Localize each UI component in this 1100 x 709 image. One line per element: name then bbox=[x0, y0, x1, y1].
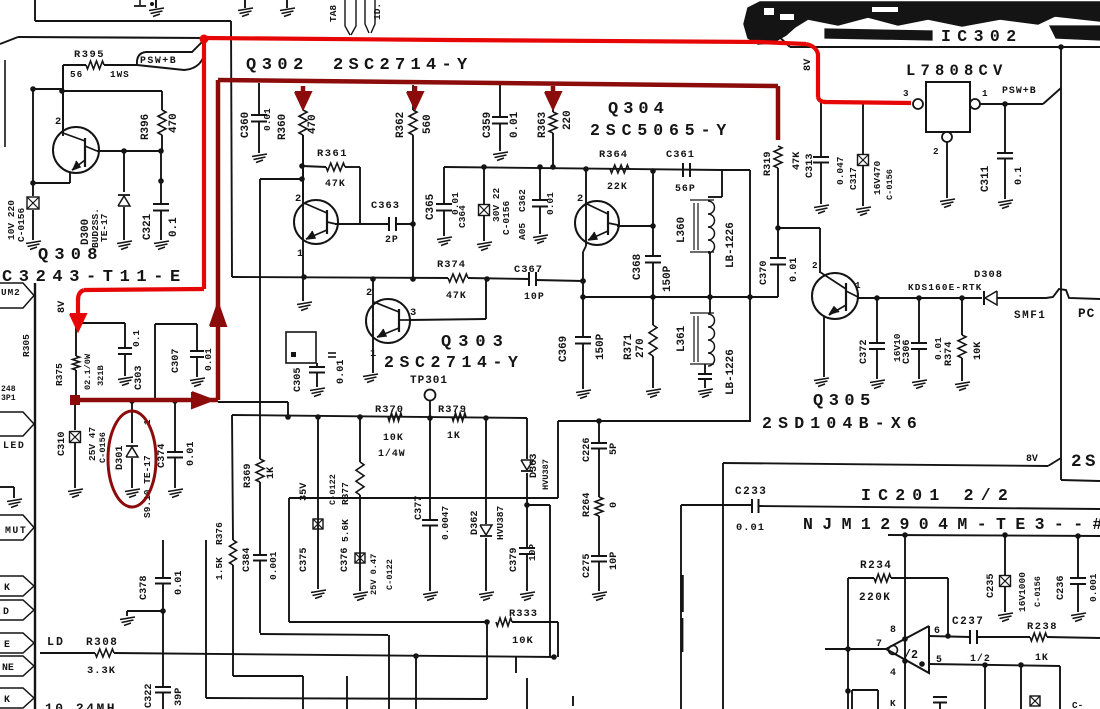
transistor Q303 bbox=[372, 279, 374, 373]
wire hop to PC bbox=[1046, 289, 1100, 299]
box connector TP bbox=[286, 332, 316, 363]
svg-text:C317: C317 bbox=[848, 167, 859, 190]
wire inner top y535 bbox=[888, 535, 1100, 536]
svg-text:C-0122: C-0122 bbox=[385, 559, 395, 590]
svg-text:1D.: 1D. bbox=[372, 3, 383, 20]
wire Q303 collector bbox=[410, 319, 486, 320]
svg-text:470: 470 bbox=[168, 113, 180, 133]
svg-text:R376: R376 bbox=[214, 522, 225, 545]
svg-text:8: 8 bbox=[890, 624, 896, 635]
svg-text:LB-1226: LB-1226 bbox=[725, 349, 737, 395]
svg-text:NE: NE bbox=[2, 662, 14, 673]
capacitor C307 bbox=[154, 324, 156, 399]
svg-text:R360: R360 bbox=[277, 114, 289, 140]
svg-text:C363: C363 bbox=[371, 200, 400, 212]
svg-text:LD: LD bbox=[47, 636, 65, 649]
svg-text:R361: R361 bbox=[317, 148, 348, 160]
wire Q303 emitter bbox=[363, 374, 378, 377]
svg-text:1: 1 bbox=[297, 248, 303, 260]
svg-text:D308: D308 bbox=[974, 269, 1003, 281]
resistor R370 bbox=[388, 413, 402, 421]
svg-text:0.01: 0.01 bbox=[509, 111, 521, 138]
resistor R379 bbox=[452, 413, 466, 421]
resistor R319 bbox=[774, 146, 782, 168]
wire R308 long bbox=[114, 653, 554, 657]
svg-text:0.01: 0.01 bbox=[203, 348, 214, 371]
svg-text:R333: R333 bbox=[509, 608, 538, 620]
svg-text:R374: R374 bbox=[437, 259, 466, 271]
svg-text:47K: 47K bbox=[325, 178, 346, 189]
svg-text:6: 6 bbox=[934, 625, 940, 636]
svg-text:248: 248 bbox=[1, 385, 16, 394]
svg-text:3: 3 bbox=[903, 88, 909, 99]
svg-text:1WS: 1WS bbox=[110, 69, 130, 80]
red highlight path main bbox=[204, 38, 806, 44]
svg-text:TA8: TA8 bbox=[328, 5, 339, 22]
svg-text:1K: 1K bbox=[447, 430, 461, 441]
svg-text:150P: 150P bbox=[662, 265, 674, 292]
svg-text:C-0156: C-0156 bbox=[1033, 576, 1043, 607]
capacitor C306 bbox=[918, 298, 920, 342]
svg-text:150P: 150P bbox=[595, 333, 607, 360]
svg-text:C3243-T11-E: C3243-T11-E bbox=[2, 268, 187, 287]
inductor L360 bbox=[721, 170, 723, 197]
diode D362 chain bbox=[485, 418, 487, 524]
svg-text:C-: C- bbox=[1072, 700, 1083, 709]
transistor Q308 bbox=[53, 127, 99, 173]
svg-text:C-0156: C-0156 bbox=[885, 169, 895, 200]
svg-text:C367: C367 bbox=[514, 264, 543, 276]
resistor R377 chain bbox=[359, 417, 361, 462]
svg-text:2SD104B-X6: 2SD104B-X6 bbox=[762, 414, 923, 433]
svg-text:LED: LED bbox=[3, 440, 25, 451]
capacitor top small bbox=[139, 0, 141, 5]
svg-text:A05: A05 bbox=[517, 223, 528, 240]
resistor R395 bbox=[63, 64, 86, 66]
wire 8V rail right bbox=[723, 463, 1048, 466]
svg-text:R370: R370 bbox=[375, 404, 404, 416]
resistor R308 bbox=[95, 649, 114, 657]
svg-text:D: D bbox=[3, 606, 9, 617]
capacitor C370 bbox=[777, 228, 779, 257]
net label E bbox=[0, 633, 34, 653]
capacitor C365 bbox=[443, 167, 445, 203]
svg-text:2SC5065-Y: 2SC5065-Y bbox=[590, 121, 732, 140]
wire IC201 box top bbox=[722, 463, 724, 709]
svg-text:UM2: UM2 bbox=[1, 287, 21, 298]
wire y91 to R396 bbox=[62, 90, 162, 92]
capacitor C363 bbox=[335, 223, 388, 225]
svg-text:16V470: 16V470 bbox=[872, 160, 883, 195]
svg-text:1K: 1K bbox=[1035, 652, 1049, 663]
svg-text:2SC2714-Y: 2SC2714-Y bbox=[384, 353, 524, 372]
svg-text:3: 3 bbox=[410, 307, 416, 319]
svg-text:C360: C360 bbox=[240, 112, 252, 138]
capacitor C361 bbox=[682, 163, 684, 177]
wire vertical bus x232 bbox=[231, 21, 232, 277]
svg-text:2SC2714-Y: 2SC2714-Y bbox=[333, 56, 473, 75]
svg-text:C-0122: C-0122 bbox=[328, 474, 338, 505]
wire Q308 collector bbox=[97, 150, 161, 152]
svg-text:C384: C384 bbox=[242, 548, 253, 572]
svg-text:2: 2 bbox=[812, 260, 818, 271]
svg-text:C236: C236 bbox=[1056, 576, 1067, 600]
svg-text:R305: R305 bbox=[21, 334, 32, 357]
net label NE bbox=[0, 656, 34, 676]
wire D363 to bottom bbox=[527, 504, 550, 506]
svg-text:3P1: 3P1 bbox=[1, 394, 16, 403]
dark red arrow2 bbox=[413, 86, 418, 95]
svg-text:10K: 10K bbox=[512, 635, 534, 647]
svg-text:R264: R264 bbox=[582, 493, 593, 517]
ground top1 bbox=[155, 0, 157, 8]
svg-text:HVU387: HVU387 bbox=[541, 459, 551, 490]
transistor Q304 bbox=[575, 201, 619, 245]
svg-text:470: 470 bbox=[307, 114, 319, 134]
capacitor C310 bbox=[74, 400, 76, 430]
svg-text:IC302: IC302 bbox=[941, 27, 1023, 46]
wire y47 rail bbox=[790, 46, 1061, 48]
resistor R363 bbox=[552, 86, 554, 112]
svg-text:10P: 10P bbox=[524, 291, 545, 302]
svg-text:R371: R371 bbox=[623, 333, 635, 360]
wire Q305 collector bus bbox=[857, 297, 982, 299]
svg-text:C310: C310 bbox=[57, 432, 68, 456]
wire x527 bottom bbox=[526, 678, 528, 709]
op-amp U1 IC201 bbox=[886, 626, 929, 673]
wire pin1 PSW+B bbox=[980, 103, 1043, 105]
svg-text:TP301: TP301 bbox=[410, 375, 448, 387]
svg-text:1/2: 1/2 bbox=[970, 653, 991, 664]
transistor Q302b bbox=[294, 200, 338, 244]
diode D300 varactor bbox=[123, 151, 125, 192]
svg-text:R238: R238 bbox=[1027, 621, 1058, 633]
svg-text:C226: C226 bbox=[582, 438, 593, 462]
svg-text:C361: C361 bbox=[666, 149, 695, 161]
wire x416 down bbox=[415, 656, 417, 709]
resistor R369 chain bbox=[259, 277, 261, 459]
ground top3 bbox=[286, 0, 288, 8]
wire bus B y297 bbox=[583, 296, 778, 298]
capacitor C368 chain bbox=[652, 170, 654, 255]
wire LD line bbox=[40, 652, 95, 654]
svg-text:47K: 47K bbox=[792, 151, 803, 170]
svg-text:270: 270 bbox=[635, 338, 647, 358]
svg-text:C306: C306 bbox=[902, 340, 913, 364]
capacitor C305 bbox=[316, 363, 318, 366]
svg-text:0.01: 0.01 bbox=[545, 192, 556, 215]
wire mut ground bbox=[0, 486, 14, 488]
svg-text:1K: 1K bbox=[266, 466, 277, 479]
capacitor C360 bbox=[258, 83, 260, 114]
wire Q304 collector bbox=[617, 225, 653, 227]
capacitor C226 bbox=[598, 421, 600, 442]
resistor R361 bbox=[302, 166, 326, 167]
wire Q302b emitter bbox=[301, 274, 307, 280]
dark red ellipse D301 bbox=[108, 411, 156, 507]
svg-text:2: 2 bbox=[55, 116, 61, 128]
svg-text:C359: C359 bbox=[482, 112, 494, 138]
net label LED bbox=[0, 412, 34, 436]
svg-text:0.01: 0.01 bbox=[933, 337, 944, 360]
svg-text:0.01: 0.01 bbox=[186, 442, 197, 466]
svg-text:56P: 56P bbox=[675, 183, 696, 194]
svg-text:TE-17: TE-17 bbox=[99, 213, 110, 242]
wire x905 down bbox=[904, 535, 906, 709]
svg-text:0.001: 0.001 bbox=[268, 551, 279, 580]
net label MUT bbox=[0, 515, 34, 540]
svg-text:5P: 5P bbox=[609, 443, 620, 455]
svg-text:C372: C372 bbox=[859, 340, 870, 364]
svg-text:2: 2 bbox=[577, 193, 583, 205]
svg-text:1.5K: 1.5K bbox=[214, 557, 225, 580]
svg-text:R395: R395 bbox=[74, 49, 105, 61]
svg-text:22K: 22K bbox=[607, 181, 628, 192]
svg-text:220: 220 bbox=[562, 110, 574, 130]
capacitor C235 bbox=[1004, 535, 1006, 575]
dark red vertical R319 bbox=[776, 86, 781, 140]
svg-text:0.1: 0.1 bbox=[1014, 167, 1025, 185]
capacitor C372 bbox=[876, 298, 878, 342]
zener D309 bbox=[32, 183, 34, 196]
svg-text:0.1: 0.1 bbox=[131, 330, 142, 347]
svg-text:16V1000: 16V1000 bbox=[1017, 572, 1028, 612]
svg-text:25V 0.47: 25V 0.47 bbox=[369, 554, 379, 595]
svg-text:C374: C374 bbox=[157, 444, 168, 468]
resistor R333 bbox=[496, 618, 512, 626]
svg-text:R396: R396 bbox=[140, 114, 152, 140]
svg-text:C-0156: C-0156 bbox=[501, 200, 512, 235]
wire x33 branch bbox=[32, 89, 34, 183]
svg-text:220K: 220K bbox=[859, 592, 891, 604]
capacitor C364 bbox=[483, 167, 485, 204]
wire x206 vertical bbox=[205, 540, 207, 698]
svg-text:7: 7 bbox=[876, 638, 882, 649]
svg-text:KDS160E-RTK: KDS160E-RTK bbox=[908, 282, 983, 293]
svg-text:10K: 10K bbox=[973, 341, 984, 360]
wire opamp out bbox=[825, 648, 886, 650]
svg-text:R375: R375 bbox=[54, 363, 65, 386]
capacitor C311 bbox=[1004, 104, 1006, 152]
svg-text:L361: L361 bbox=[676, 325, 688, 352]
svg-text:R379: R379 bbox=[438, 404, 467, 416]
svg-text:D362: D362 bbox=[470, 511, 481, 535]
svg-text:C364: C364 bbox=[457, 205, 468, 228]
diode D363 chain bbox=[526, 418, 528, 459]
svg-text:PSW+B: PSW+B bbox=[140, 55, 177, 66]
svg-text:HVU387: HVU387 bbox=[495, 505, 506, 540]
svg-text:C365: C365 bbox=[425, 194, 437, 220]
wire 573 tick bbox=[572, 696, 574, 706]
resistor R374b bbox=[961, 298, 963, 335]
test point TP301 bbox=[425, 390, 436, 401]
dark red highlight bus bbox=[218, 80, 778, 86]
svg-text:L360: L360 bbox=[676, 217, 688, 243]
svg-text:0.01: 0.01 bbox=[174, 571, 185, 595]
svg-text:Q302: Q302 bbox=[246, 56, 309, 75]
diode D301 varactor bbox=[131, 400, 133, 443]
wire Q304 emitter chain bbox=[583, 246, 586, 252]
svg-text:NJM12904M-TE3--#22: NJM12904M-TE3--#22 bbox=[803, 515, 1100, 534]
svg-text:R364: R364 bbox=[599, 149, 628, 161]
net label K2 bbox=[0, 688, 34, 708]
svg-text:56: 56 bbox=[70, 69, 83, 80]
inductor L361 bbox=[709, 297, 711, 313]
svg-text:C375: C375 bbox=[299, 548, 310, 572]
net label PSW+B callout bbox=[137, 40, 204, 65]
capacitor C275 bbox=[591, 555, 607, 557]
svg-text:25V 47: 25V 47 bbox=[87, 426, 98, 461]
svg-text:0.01: 0.01 bbox=[262, 108, 273, 131]
resistor R376 chain bbox=[232, 415, 233, 540]
net label CLK bbox=[0, 576, 34, 596]
svg-text:C362: C362 bbox=[517, 189, 528, 212]
svg-text:C313: C313 bbox=[805, 154, 816, 178]
capacitor C374 bbox=[174, 400, 176, 451]
svg-text:R308: R308 bbox=[86, 637, 118, 649]
wire y676 bbox=[233, 675, 303, 677]
capacitor C367 bbox=[528, 272, 530, 286]
resistor R364 bbox=[610, 165, 629, 173]
svg-text:0.0047: 0.0047 bbox=[440, 505, 451, 540]
svg-text:2S: 2S bbox=[1071, 452, 1099, 472]
wire Q308 emitter bbox=[69, 172, 71, 183]
wire x682 blotches bbox=[680, 575, 684, 612]
svg-text:K: K bbox=[4, 582, 10, 593]
svg-text:C368: C368 bbox=[632, 254, 644, 280]
resistor R234 loop bbox=[848, 577, 874, 579]
svg-text:C379: C379 bbox=[509, 548, 520, 572]
wire pin2 gnd bbox=[946, 142, 948, 198]
svg-text:Q305: Q305 bbox=[813, 392, 876, 411]
wire Q305 emitter bbox=[823, 316, 825, 377]
svg-text:R363: R363 bbox=[537, 112, 549, 138]
resistor R375 bbox=[75, 323, 77, 356]
capacitor C377 chain bbox=[429, 418, 431, 519]
ground top2 bbox=[244, 0, 246, 8]
svg-text:C305: C305 bbox=[293, 368, 304, 392]
svg-text:R369: R369 bbox=[243, 464, 254, 488]
box bottom partial bbox=[851, 690, 853, 709]
svg-text:1: 1 bbox=[370, 348, 376, 360]
svg-text:2: 2 bbox=[933, 146, 939, 157]
svg-text:C321: C321 bbox=[142, 213, 154, 240]
svg-text:C311: C311 bbox=[980, 165, 992, 192]
svg-text:R319: R319 bbox=[763, 152, 774, 176]
svg-text:1/4W: 1/4W bbox=[378, 448, 406, 459]
dark red arrow1 bbox=[301, 86, 306, 95]
wire bus A y278 bbox=[232, 277, 448, 278]
dark red vertical left bbox=[216, 80, 221, 400]
svg-text:0.01: 0.01 bbox=[736, 522, 765, 534]
ic bar black band bbox=[744, 2, 1100, 44]
regulator L7808CV box bbox=[926, 82, 970, 132]
svg-text:C378: C378 bbox=[139, 576, 150, 600]
net label LD flag bbox=[0, 600, 34, 620]
svg-text:2: 2 bbox=[366, 287, 372, 299]
wire bus C y417 bbox=[232, 415, 527, 418]
resistor R362 bbox=[412, 85, 414, 110]
capacitor C236 bbox=[1077, 536, 1079, 577]
svg-text:LB-1226: LB-1226 bbox=[725, 222, 737, 268]
wire tall x1061 bbox=[1060, 47, 1062, 480]
dark red arrow3 bbox=[551, 86, 556, 95]
svg-text:K: K bbox=[4, 694, 10, 705]
svg-text:4: 4 bbox=[890, 667, 896, 678]
wire 8V node from arrow bbox=[76, 322, 125, 324]
capacitor C362 bbox=[539, 167, 541, 199]
wire bottom box outline bbox=[289, 497, 558, 499]
transistor Q305 bbox=[812, 273, 858, 319]
left border small parts bbox=[4, 60, 6, 147]
svg-text:D301: D301 bbox=[115, 446, 126, 470]
svg-text:2: 2 bbox=[295, 193, 301, 205]
svg-text:0.01: 0.01 bbox=[336, 360, 347, 384]
wire top-left box outline bbox=[34, 0, 36, 21]
resistor R360 bbox=[302, 86, 304, 110]
svg-text:Q303: Q303 bbox=[441, 333, 510, 352]
svg-text:0.01: 0.01 bbox=[789, 258, 800, 282]
svg-text:47K: 47K bbox=[446, 290, 467, 301]
svg-text:C377: C377 bbox=[414, 496, 425, 520]
svg-text:5.6K: 5.6K bbox=[340, 519, 351, 542]
capacitor C317 bbox=[862, 103, 864, 154]
svg-text:C307: C307 bbox=[171, 349, 182, 373]
wire bias tap bbox=[260, 178, 303, 180]
capacitor C359 bbox=[499, 85, 501, 116]
svg-text:560: 560 bbox=[422, 114, 434, 134]
wire y402 under darkred bbox=[218, 401, 288, 403]
svg-text:0.001: 0.001 bbox=[1088, 573, 1099, 602]
svg-text:E: E bbox=[4, 639, 10, 650]
svg-text:321B: 321B bbox=[96, 365, 106, 386]
wire box right x750 bbox=[722, 169, 750, 171]
svg-text:R234: R234 bbox=[860, 560, 892, 572]
svg-text:R374: R374 bbox=[944, 342, 955, 366]
svg-text:C322: C322 bbox=[144, 684, 155, 708]
wire C378 tap ground bbox=[127, 610, 163, 612]
svg-text:0.1: 0.1 bbox=[168, 217, 180, 237]
svg-text:C-0156: C-0156 bbox=[16, 207, 27, 242]
wire to Q305 base bbox=[778, 227, 820, 229]
svg-text:8V: 8V bbox=[57, 300, 68, 313]
capacitor C378 C322 chain bbox=[162, 540, 164, 577]
svg-text:Q308: Q308 bbox=[38, 246, 104, 265]
dark red bottom arrow line bbox=[75, 398, 218, 403]
svg-text:10.24MH: 10.24MH bbox=[45, 701, 117, 709]
svg-text:MUT: MUT bbox=[5, 525, 27, 536]
svg-text:C376: C376 bbox=[340, 548, 351, 572]
wire main 8V rail y38 bbox=[0, 37, 18, 44]
resistor R264 bbox=[595, 497, 603, 516]
capacitor C375 chain bbox=[317, 417, 319, 589]
svg-text:C237: C237 bbox=[952, 616, 984, 628]
svg-text:C275: C275 bbox=[582, 554, 593, 578]
svg-text:1: 1 bbox=[855, 280, 861, 291]
wire base Q308 bbox=[62, 65, 64, 136]
svg-text:10K: 10K bbox=[383, 432, 404, 443]
svg-text:C370: C370 bbox=[759, 261, 770, 285]
capacitor C233 bbox=[681, 504, 752, 506]
left border vertical bbox=[34, 283, 36, 709]
capacitor C313 bbox=[820, 103, 822, 156]
svg-text:R362: R362 bbox=[395, 112, 407, 138]
svg-text:8V: 8V bbox=[803, 58, 814, 71]
svg-text:L7808CV: L7808CV bbox=[906, 62, 1008, 80]
svg-text:10P: 10P bbox=[609, 552, 620, 570]
svg-text:R377: R377 bbox=[340, 482, 351, 505]
svg-text:C369: C369 bbox=[558, 336, 570, 362]
